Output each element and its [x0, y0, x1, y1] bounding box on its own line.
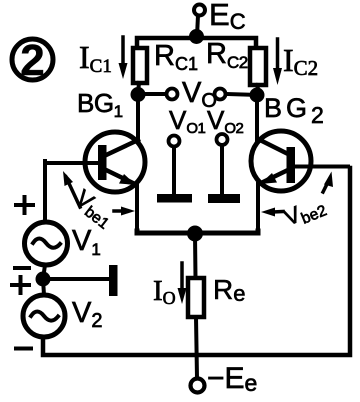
wire: BG1 base — [45, 161, 99, 165]
arrow: Vbe1 to base — [63, 171, 80, 207]
wire: base of BG1 down to V1 — [45, 161, 46, 222]
wire: Vo2 probe lead — [220, 145, 224, 195]
wire: midpoint to ground bar — [43, 277, 110, 281]
wire: emitter junction to Re — [193, 234, 198, 278]
wire: BG2 emitter — [256, 184, 260, 231]
wire: bottom rail — [43, 168, 350, 355]
source V1 — [25, 222, 68, 265]
plus sign of V1 — [16, 197, 33, 213]
minus sign of V2 — [16, 347, 31, 351]
wire: V1 to midpoint node — [43, 265, 45, 279]
wire: BG1 emitter — [135, 184, 139, 231]
figure number 2 — [12, 36, 53, 85]
wire: RC2 to collector node — [257, 85, 258, 94]
wire: midpoint to V2 — [43, 279, 44, 295]
node: collector of BG2 — [250, 88, 265, 103]
current arrow Io — [178, 263, 187, 304]
arrow: Vbe2 to emitter — [261, 208, 283, 217]
ground bar at source midpoint — [109, 265, 118, 296]
arrow: Vbe1 to emitter — [114, 207, 135, 216]
resistor RC2 — [250, 48, 266, 85]
terminal Vo right — [215, 89, 226, 100]
arrow: Vbe2 to base — [323, 172, 333, 193]
wire: Re to -Ee terminal — [196, 317, 197, 378]
probe terminal Vo1 — [169, 136, 180, 147]
label Vbe1 — [69, 184, 119, 232]
plus sign of V2 — [12, 277, 29, 293]
wire: Ec to top rail — [197, 16, 198, 37]
svg-text:2: 2 — [20, 36, 44, 85]
node: emitter junction — [187, 226, 203, 242]
wire: RC1 to collector node — [138, 83, 139, 93]
resistor Re — [188, 278, 204, 317]
current arrow IC1 — [119, 37, 128, 79]
wire: BG1 collector — [136, 94, 140, 141]
wire: Vo1 probe lead — [172, 147, 176, 195]
transistor BG1 — [85, 132, 145, 192]
ground bar under Vo2 — [208, 194, 240, 203]
label Vbe2 — [280, 191, 329, 233]
wire: top rail — [137, 38, 256, 48]
wire: node to Vo left terminal — [138, 92, 166, 96]
node: top rail junction — [189, 29, 204, 44]
source V2 — [23, 295, 65, 337]
minus sign of V1 — [15, 266, 29, 270]
node: source midpoint — [36, 272, 51, 287]
wire: BG2 collector — [255, 95, 259, 140]
ground bar under Vo1 — [157, 194, 192, 203]
probe terminal Vo2 — [217, 134, 228, 145]
terminal Ec — [194, 5, 205, 16]
terminal Vo left — [167, 89, 178, 100]
wire: emitter rail — [137, 231, 258, 233]
terminal -Ee — [191, 379, 205, 393]
current arrow IC2 — [273, 39, 282, 85]
transistor BG2 — [251, 131, 311, 191]
node: collector of BG1 — [131, 87, 146, 102]
resistor RC1 — [133, 48, 147, 83]
wire: Vo right terminal to node — [226, 94, 257, 95]
wire: BG2 base — [295, 165, 348, 169]
